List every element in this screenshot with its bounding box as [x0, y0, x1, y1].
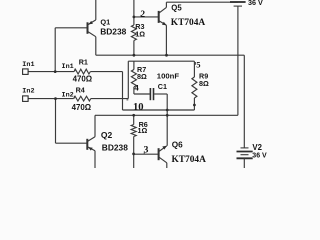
svg-text:1Ω: 1Ω	[135, 30, 145, 39]
svg-text:100nF: 100nF	[157, 71, 180, 80]
svg-text:BD238: BD238	[102, 142, 128, 152]
svg-text:1Ω: 1Ω	[138, 126, 148, 135]
svg-text:36 V: 36 V	[248, 0, 263, 7]
svg-text:5: 5	[196, 60, 200, 70]
svg-text:R1: R1	[79, 58, 88, 67]
svg-text:BD238: BD238	[100, 27, 126, 37]
svg-text:8Ω: 8Ω	[199, 79, 209, 88]
svg-text:C1: C1	[158, 82, 167, 91]
svg-text:4: 4	[134, 82, 139, 92]
svg-text:In1: In1	[22, 61, 34, 69]
svg-text:KT704A: KT704A	[171, 18, 206, 28]
svg-text:KT704A: KT704A	[172, 155, 207, 165]
svg-text:Q1: Q1	[100, 17, 110, 26]
svg-text:470Ω: 470Ω	[72, 103, 92, 112]
svg-text:470Ω: 470Ω	[73, 74, 93, 83]
svg-text:Q6: Q6	[172, 140, 183, 149]
svg-text:Q2: Q2	[101, 130, 113, 140]
svg-text:In1: In1	[62, 63, 74, 71]
svg-text:2: 2	[140, 10, 145, 20]
svg-text:Q5: Q5	[171, 4, 182, 13]
svg-text:36 V: 36 V	[252, 152, 267, 159]
svg-text:10: 10	[133, 102, 144, 113]
svg-text:In2: In2	[22, 88, 34, 96]
svg-text:In2: In2	[62, 92, 74, 100]
svg-text:R4: R4	[76, 86, 85, 95]
svg-text:V2: V2	[252, 143, 262, 152]
svg-text:3: 3	[144, 144, 149, 155]
svg-text:8Ω: 8Ω	[137, 72, 147, 81]
